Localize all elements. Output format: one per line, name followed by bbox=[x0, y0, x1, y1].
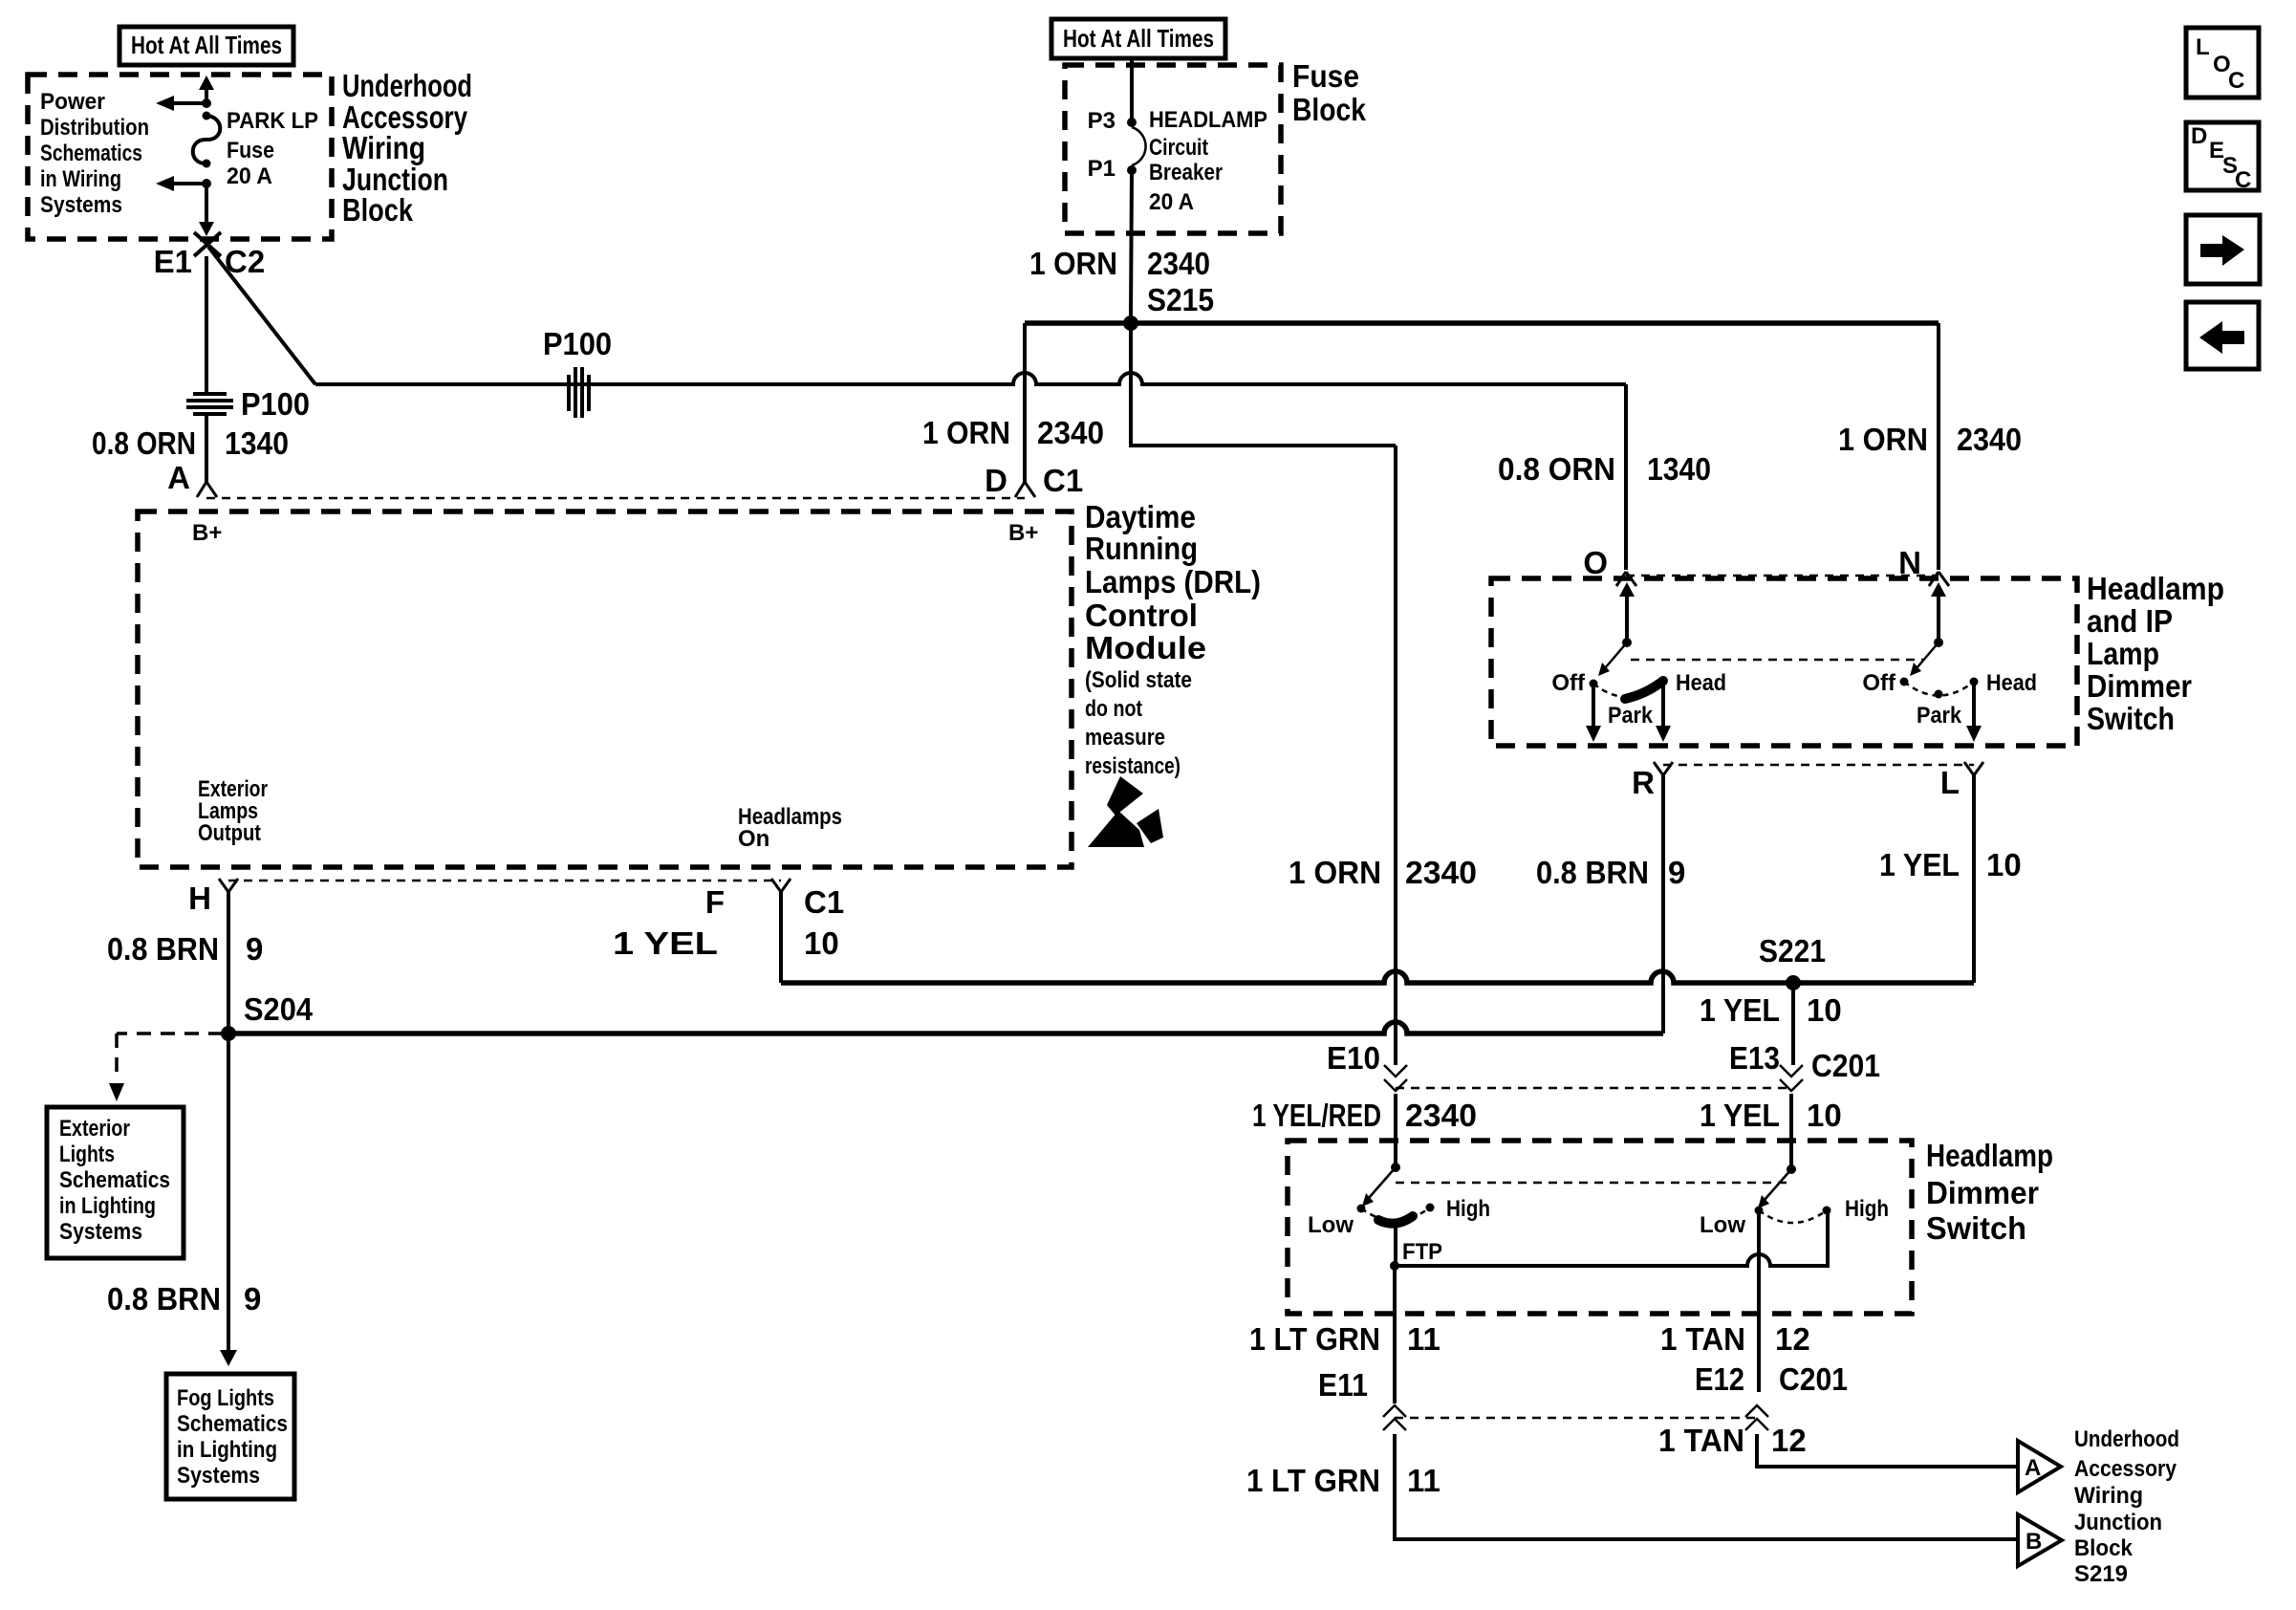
wire: E11 to B triangle bbox=[1395, 1434, 2018, 1539]
svg-text:1 LT GRN: 1 LT GRN bbox=[1246, 1463, 1380, 1498]
connector break E12 bbox=[1745, 1405, 1768, 1430]
svg-text:10: 10 bbox=[1986, 847, 2022, 882]
wire: horizontal 2340 run (y=402) with hops bbox=[315, 373, 1626, 384]
junction dot lower bbox=[202, 179, 211, 188]
wire: E12 to A triangle bbox=[1757, 1434, 2018, 1467]
svg-text:Lights: Lights bbox=[59, 1142, 115, 1167]
pin labels D C1 bbox=[985, 463, 1083, 498]
svg-text:resistance): resistance) bbox=[1085, 753, 1180, 779]
svg-text:Off: Off bbox=[1862, 670, 1896, 696]
svg-text:1 YEL: 1 YEL bbox=[1879, 847, 1960, 882]
note: Power Distribution Schematics in Wiring Systems bbox=[40, 89, 149, 218]
svg-text:10: 10 bbox=[1807, 1098, 1842, 1133]
connector Y at L bbox=[1964, 762, 1983, 775]
pin labels F C1 bbox=[705, 884, 844, 920]
contact Head (SW1) bbox=[1659, 678, 1668, 686]
connector P100 inline (vertical wire) bbox=[186, 394, 233, 414]
connector break E11 bbox=[1383, 1405, 1406, 1430]
nav box LOC bbox=[2186, 28, 2259, 98]
switch SW2 input arrow (N) bbox=[1931, 582, 1946, 642]
svg-text:A: A bbox=[2025, 1455, 2041, 1481]
svg-text:2340: 2340 bbox=[1147, 246, 1210, 281]
label: Fuse Block bbox=[1292, 58, 1367, 127]
svg-text:L: L bbox=[2196, 34, 2210, 60]
svg-text:Wiring: Wiring bbox=[2074, 1483, 2143, 1509]
svg-text:0.8 BRN: 0.8 BRN bbox=[107, 1281, 221, 1316]
wire: S221 down to E13 bbox=[1791, 983, 1795, 1065]
svg-text:9: 9 bbox=[1668, 855, 1685, 890]
wire: R down to S204 run (y=1081) with hop bbox=[1661, 775, 1665, 1033]
label: Headlamps On bbox=[738, 804, 842, 852]
wire: fuse output down arrow bbox=[199, 184, 214, 236]
label: Daytime Running Lamps (DRL) Control Module bbox=[1085, 499, 1261, 665]
thin dashed connector line E10-E13 bbox=[1396, 1087, 1791, 1090]
svg-text:High: High bbox=[1845, 1196, 1889, 1222]
wire: Head down arrow to R (SW1) bbox=[1656, 682, 1671, 742]
label 1 ORN 2340 (N branch) bbox=[1838, 422, 2022, 457]
note: (Solid state do not measure resistance) bbox=[1085, 667, 1192, 779]
svg-text:Park: Park bbox=[1608, 703, 1654, 729]
label 1 TAN 12 (lower) bbox=[1658, 1423, 1807, 1458]
svg-text:HEADLAMP: HEADLAMP bbox=[1149, 107, 1267, 133]
connector Y at O bbox=[1616, 572, 1636, 586]
contact Off (SW1) bbox=[1590, 680, 1598, 688]
label 0.8 BRN 9 (upper) bbox=[107, 931, 263, 967]
splice S221 bbox=[1786, 975, 1801, 990]
switch SW1 arm to Off bbox=[1598, 642, 1627, 676]
svg-text:10: 10 bbox=[804, 925, 839, 961]
svg-text:Schematics: Schematics bbox=[177, 1411, 288, 1437]
svg-text:Fog Lights: Fog Lights bbox=[177, 1385, 274, 1411]
svg-text:1 LT GRN: 1 LT GRN bbox=[1249, 1321, 1380, 1357]
svg-text:and IP: and IP bbox=[2087, 603, 2173, 639]
wire: Head down arrow to L (SW2) bbox=[1966, 682, 1982, 742]
svg-text:On: On bbox=[738, 826, 769, 852]
svg-text:Accessory: Accessory bbox=[2074, 1456, 2177, 1482]
svg-text:Underhood: Underhood bbox=[342, 68, 472, 103]
svg-text:Hot At All Times: Hot At All Times bbox=[1063, 24, 1214, 53]
labels E13 C201 bbox=[1729, 1040, 1880, 1083]
wire: vertical to O (x=1701) bbox=[1624, 384, 1628, 570]
connector E1/C2 (X break) bbox=[194, 232, 221, 256]
wire: breaker output to S215 bbox=[1131, 170, 1132, 315]
svg-text:Fuse: Fuse bbox=[1292, 58, 1359, 94]
svg-text:in Lighting: in Lighting bbox=[59, 1193, 156, 1219]
svg-text:C1: C1 bbox=[1043, 463, 1083, 498]
dashed box: Underhood Accessory Wiring Junction Block (left) bbox=[28, 75, 332, 239]
svg-text:Junction: Junction bbox=[2074, 1510, 2162, 1535]
svg-text:Systems: Systems bbox=[40, 192, 122, 218]
svg-text:C: C bbox=[2235, 167, 2251, 193]
svg-text:C: C bbox=[2228, 68, 2244, 94]
svg-text:in Wiring: in Wiring bbox=[40, 166, 121, 192]
label 0.8 BRN 9 (R branch) bbox=[1536, 855, 1685, 890]
switch SW2 common dot bbox=[1934, 638, 1943, 647]
box: Fog Lights Schematics in Lighting Systems bbox=[166, 1374, 294, 1499]
svg-text:Dimmer: Dimmer bbox=[2087, 668, 2192, 704]
connector Y at DRL pin D bbox=[1015, 482, 1035, 497]
thin dashed connector line O-N bbox=[1626, 575, 1939, 577]
svg-text:Block: Block bbox=[1292, 92, 1367, 127]
label 1 YEL/RED 2340 bbox=[1252, 1098, 1477, 1133]
contact Park (SW2) bbox=[1935, 690, 1943, 699]
svg-text:20 A: 20 A bbox=[227, 163, 272, 189]
dashed box: DRL Control Module bbox=[138, 511, 1072, 867]
wire: S204 down to fog lights arrow bbox=[220, 1033, 237, 1366]
svg-text:measure: measure bbox=[1085, 725, 1165, 751]
connector Y at DRL pin H bbox=[219, 879, 238, 892]
svg-text:(Solid state: (Solid state bbox=[1085, 667, 1192, 693]
switch SW1 input arrow (O) bbox=[1619, 582, 1635, 642]
svg-text:P1: P1 bbox=[1088, 156, 1116, 182]
switch SW4 common dot bbox=[1787, 1164, 1796, 1174]
svg-text:1 TAN: 1 TAN bbox=[1658, 1423, 1744, 1458]
svg-text:S221: S221 bbox=[1759, 933, 1826, 968]
fuse PARK LP 20 A bbox=[193, 112, 221, 168]
svg-text:B+: B+ bbox=[192, 520, 222, 546]
svg-text:O: O bbox=[1583, 545, 1608, 580]
svg-text:Off: Off bbox=[1551, 670, 1586, 696]
wire: vertical to D (x=1072) bbox=[1023, 323, 1027, 483]
svg-text:E11: E11 bbox=[1318, 1367, 1368, 1403]
connector P100 inline (horizontal wire) bbox=[569, 367, 589, 418]
svg-text:Block: Block bbox=[342, 192, 414, 228]
svg-text:Schematics: Schematics bbox=[40, 141, 142, 166]
wiper (SW3, at Low) bbox=[1378, 1216, 1413, 1224]
connector break E13 bbox=[1780, 1065, 1803, 1091]
wire: H down to S204 bbox=[227, 892, 230, 1033]
connector Y at N bbox=[1929, 572, 1949, 586]
wire: E10 into switch bbox=[1394, 1094, 1397, 1167]
dashed box: Fuse Block bbox=[1065, 65, 1281, 233]
label 1 YEL 10 (S221 down) bbox=[1700, 992, 1842, 1028]
label: Underhood Accessory Wiring Junction Block S219 bbox=[2074, 1426, 2179, 1587]
svg-text:0.8 ORN: 0.8 ORN bbox=[1498, 451, 1615, 487]
svg-text:11: 11 bbox=[1407, 1321, 1440, 1357]
off-page triangle A bbox=[2018, 1441, 2061, 1492]
svg-text:1 YEL: 1 YEL bbox=[613, 925, 718, 961]
label: Exterior Lamps Output bbox=[198, 776, 268, 846]
box: Hot At All Times (left) bbox=[119, 27, 293, 65]
svg-text:B: B bbox=[2025, 1529, 2042, 1555]
svg-text:do not: do not bbox=[1085, 696, 1142, 722]
nav box left arrow bbox=[2186, 302, 2259, 369]
label 0.8 BRN 9 (lower) bbox=[107, 1281, 261, 1316]
svg-text:1 YEL: 1 YEL bbox=[1700, 1098, 1780, 1133]
svg-text:Schematics: Schematics bbox=[59, 1167, 170, 1193]
svg-text:Power: Power bbox=[40, 89, 105, 115]
junction dot FTP bbox=[1390, 1261, 1399, 1271]
svg-text:B+: B+ bbox=[1008, 520, 1038, 546]
svg-text:1 YEL: 1 YEL bbox=[1700, 992, 1780, 1028]
svg-text:Module: Module bbox=[1085, 630, 1206, 665]
switch SW3 common dot bbox=[1391, 1163, 1400, 1172]
svg-text:Systems: Systems bbox=[59, 1219, 142, 1245]
dashed box: Headlamp and IP Lamp Dimmer Switch bbox=[1491, 578, 2077, 746]
svg-text:E1: E1 bbox=[154, 244, 192, 279]
svg-text:Control: Control bbox=[1085, 598, 1198, 633]
circuit breaker HEADLAMP 20A bbox=[1127, 118, 1146, 175]
svg-text:12: 12 bbox=[1775, 1321, 1810, 1357]
svg-text:2340: 2340 bbox=[1957, 422, 2022, 457]
wire: horizontal from S215 (y=338) bbox=[1025, 320, 1939, 326]
svg-text:0.8 BRN: 0.8 BRN bbox=[1536, 855, 1649, 890]
svg-text:High: High bbox=[1446, 1196, 1490, 1222]
svg-text:Low: Low bbox=[1700, 1212, 1745, 1238]
svg-text:1340: 1340 bbox=[1647, 451, 1711, 487]
svg-text:PARK LP: PARK LP bbox=[227, 108, 318, 134]
svg-text:S215: S215 bbox=[1147, 282, 1214, 317]
svg-text:2340: 2340 bbox=[1405, 1098, 1477, 1133]
switch SW2 arm to Off bbox=[1910, 642, 1939, 676]
svg-text:Dimmer: Dimmer bbox=[1926, 1175, 2039, 1210]
label 1 YEL 10 (E13) bbox=[1700, 1098, 1842, 1133]
wire: Off down arrow (SW1) bbox=[1586, 684, 1601, 742]
svg-text:S219: S219 bbox=[2074, 1561, 2128, 1587]
wire: S215 down, corner right to x=1460 (y=466) bbox=[1131, 323, 1396, 446]
label 1 LT GRN 11 (upper) bbox=[1249, 1321, 1440, 1357]
dashed arc Off-Park-Head (SW2) bbox=[1904, 682, 1974, 696]
svg-text:1 ORN: 1 ORN bbox=[922, 415, 1010, 450]
thin dashed connector line H-F bbox=[228, 880, 781, 882]
contact Head (SW2) bbox=[1970, 678, 1979, 686]
off-page triangle B bbox=[2018, 1514, 2062, 1566]
svg-text:Block: Block bbox=[2074, 1535, 2134, 1561]
box: Exterior Lights Schematics in Lighting Systems bbox=[47, 1107, 184, 1258]
svg-text:1 YEL/RED: 1 YEL/RED bbox=[1252, 1098, 1381, 1133]
dashed box: Headlamp Dimmer Switch bbox=[1288, 1141, 1912, 1314]
svg-text:A: A bbox=[167, 460, 190, 495]
svg-text:C1: C1 bbox=[804, 884, 844, 920]
label 0.8 ORN 1340 (O branch) bbox=[1498, 451, 1711, 487]
wire: FTP down to E11 bbox=[1393, 1266, 1397, 1403]
svg-text:R: R bbox=[1632, 765, 1655, 800]
dashed arc Low-High (SW3) bbox=[1361, 1207, 1430, 1221]
svg-text:Head: Head bbox=[1676, 670, 1726, 696]
label 1 TAN 12 (upper) bbox=[1660, 1321, 1810, 1357]
wire: vertical 0.8 ORN 1340 bbox=[205, 256, 208, 483]
svg-text:9: 9 bbox=[246, 931, 263, 967]
svg-text:D: D bbox=[985, 463, 1007, 498]
svg-text:E12: E12 bbox=[1695, 1361, 1744, 1397]
label 1 YEL 10 (F branch) bbox=[613, 925, 839, 961]
svg-text:Exterior: Exterior bbox=[59, 1116, 130, 1142]
svg-text:Switch: Switch bbox=[1926, 1210, 2026, 1246]
svg-text:Fuse: Fuse bbox=[227, 138, 274, 163]
label: Headlamp and IP Lamp Dimmer Switch bbox=[2087, 571, 2224, 736]
wire: vertical feed to E10 (x=1460) bbox=[1394, 446, 1397, 1065]
wire: Low (SW4) down to E12 bbox=[1757, 1210, 1761, 1392]
svg-text:Lamp: Lamp bbox=[2087, 636, 2159, 671]
dashed wire: S204 to exterior lights bbox=[109, 1033, 223, 1101]
label 1 ORN 2340 (E10 feed) bbox=[1289, 855, 1477, 890]
nav box right arrow bbox=[2186, 215, 2260, 284]
svg-text:Distribution: Distribution bbox=[40, 115, 149, 141]
contact High (SW3) bbox=[1426, 1204, 1435, 1212]
svg-text:1 ORN: 1 ORN bbox=[1289, 855, 1381, 890]
labels E12 C201 bbox=[1695, 1361, 1848, 1397]
thin dashed connector line E11-E12 bbox=[1395, 1417, 1757, 1420]
thin dashed line inside dimmer switch bbox=[1396, 1182, 1791, 1185]
label 1 ORN 2340 S215 bbox=[1029, 246, 1214, 317]
svg-text:F: F bbox=[705, 884, 725, 920]
label: PARK LP Fuse 20 A bbox=[227, 108, 318, 189]
svg-text:Underhood: Underhood bbox=[2074, 1426, 2179, 1452]
svg-text:10: 10 bbox=[1807, 992, 1842, 1028]
svg-text:H: H bbox=[188, 881, 211, 916]
wire: arrow to power distribution (lower) bbox=[156, 176, 206, 191]
svg-text:Wiring: Wiring bbox=[342, 130, 425, 165]
connector Y at R bbox=[1654, 762, 1673, 775]
svg-text:20 A: 20 A bbox=[1149, 189, 1194, 215]
wiper (SW1, at Park) bbox=[1625, 681, 1663, 699]
contact Off (SW2) bbox=[1900, 678, 1909, 686]
svg-text:12: 12 bbox=[1771, 1423, 1807, 1458]
wire: F down and right to L (y=1028) with hops bbox=[779, 892, 783, 983]
dashed arc Off-Park-Head (SW1) bbox=[1593, 682, 1663, 697]
svg-text:1 ORN: 1 ORN bbox=[1029, 246, 1117, 281]
svg-text:2340: 2340 bbox=[1037, 415, 1104, 450]
nav box DESC bbox=[2186, 122, 2259, 193]
wire: FTP to High contact of SW4 with hop bbox=[1395, 1210, 1828, 1266]
svg-text:D: D bbox=[2191, 123, 2207, 149]
svg-text:Daytime: Daytime bbox=[1085, 499, 1196, 534]
svg-text:9: 9 bbox=[244, 1281, 261, 1316]
svg-text:0.8 BRN: 0.8 BRN bbox=[107, 931, 219, 967]
svg-text:1 ORN: 1 ORN bbox=[1838, 422, 1928, 457]
ESD static sensitive symbol bbox=[1088, 776, 1163, 847]
svg-text:C201: C201 bbox=[1779, 1361, 1848, 1397]
svg-text:1340: 1340 bbox=[225, 425, 289, 461]
svg-text:Switch: Switch bbox=[2087, 701, 2175, 736]
svg-text:2340: 2340 bbox=[1405, 855, 1477, 890]
label: Underhood Accessory Wiring Junction Block bbox=[342, 68, 472, 228]
junction dot upper bbox=[202, 98, 211, 108]
svg-text:in Lighting: in Lighting bbox=[177, 1437, 277, 1463]
switch SW3 arm to Low bbox=[1362, 1167, 1396, 1207]
svg-text:Breaker: Breaker bbox=[1149, 160, 1223, 185]
thin dashed connector line R-L bbox=[1663, 764, 1974, 767]
connector break E10 bbox=[1384, 1065, 1407, 1091]
label 1 YEL 10 (L branch) bbox=[1879, 847, 2022, 882]
svg-text:Running: Running bbox=[1085, 531, 1198, 566]
svg-text:C201: C201 bbox=[1811, 1048, 1880, 1083]
label: HEADLAMP Circuit Breaker 20 A bbox=[1149, 107, 1267, 215]
svg-text:Park: Park bbox=[1917, 703, 1962, 729]
contact High (SW4) bbox=[1823, 1207, 1831, 1215]
contact Low (SW4) bbox=[1755, 1207, 1764, 1215]
wire: diagonal from C2 bbox=[208, 247, 315, 384]
splice S204 bbox=[221, 1026, 236, 1041]
wire: vertical to N (x=2028) bbox=[1937, 323, 1940, 570]
thin dashed line inside IP switch bbox=[1631, 659, 1923, 662]
svg-text:P3: P3 bbox=[1088, 108, 1116, 134]
svg-text:Lamps (DRL): Lamps (DRL) bbox=[1085, 564, 1261, 599]
svg-text:Circuit: Circuit bbox=[1149, 135, 1208, 161]
svg-text:P100: P100 bbox=[543, 326, 612, 361]
svg-text:E13: E13 bbox=[1729, 1040, 1780, 1076]
svg-text:1 TAN: 1 TAN bbox=[1660, 1321, 1745, 1357]
wire: E13 into switch bbox=[1789, 1094, 1793, 1169]
svg-text:0.8 ORN: 0.8 ORN bbox=[92, 425, 196, 461]
wire: into breaker bbox=[1130, 58, 1134, 119]
svg-text:Output: Output bbox=[198, 820, 261, 846]
svg-text:Head: Head bbox=[1986, 670, 2037, 696]
switch SW4 arm to Low bbox=[1758, 1169, 1791, 1208]
label 0.8 ORN 1340 (left) bbox=[92, 425, 289, 461]
svg-text:FTP: FTP bbox=[1402, 1239, 1442, 1265]
svg-text:Systems: Systems bbox=[177, 1463, 260, 1489]
wire: wiper output to FTP bbox=[1394, 1227, 1397, 1266]
label 1 LT GRN 11 (lower) bbox=[1246, 1463, 1440, 1498]
svg-text:11: 11 bbox=[1407, 1463, 1440, 1498]
connector Y at DRL pin A bbox=[197, 482, 217, 497]
dashed arc Low-High (SW4) bbox=[1759, 1210, 1827, 1223]
contact Low (SW3) bbox=[1357, 1205, 1366, 1213]
label: Headlamp Dimmer Switch bbox=[1926, 1138, 2053, 1246]
switch SW1 common dot bbox=[1622, 638, 1632, 647]
splice S215 bbox=[1123, 315, 1138, 331]
svg-text:L: L bbox=[1940, 765, 1960, 800]
svg-text:Hot At All Times: Hot At All Times bbox=[131, 31, 282, 59]
svg-text:P100: P100 bbox=[241, 386, 310, 422]
wire: fuse feed with up arrow bbox=[199, 76, 214, 103]
svg-text:Low: Low bbox=[1308, 1212, 1354, 1238]
connector Y at DRL pin F bbox=[771, 879, 791, 892]
wire: arrow to power distribution (upper) bbox=[156, 96, 206, 111]
svg-text:E10: E10 bbox=[1327, 1040, 1380, 1076]
thin dashed connector line A-D bbox=[206, 497, 1025, 500]
label 1 ORN 2340 (D branch) bbox=[922, 415, 1104, 450]
svg-text:Headlamp: Headlamp bbox=[1926, 1138, 2053, 1173]
svg-text:S204: S204 bbox=[244, 991, 314, 1027]
svg-text:Headlamp: Headlamp bbox=[2087, 571, 2224, 606]
box: Hot At All Times (top) bbox=[1051, 19, 1225, 58]
